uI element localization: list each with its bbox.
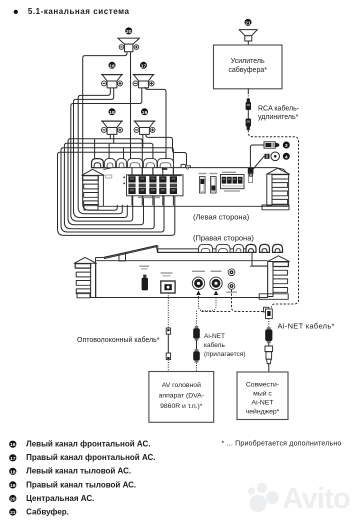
speaker 19 (rear right) — [134, 121, 156, 134]
box AV head unit — [149, 372, 214, 423]
speaker 17 minus terminal — [133, 81, 138, 86]
svg-text:16: 16 — [10, 442, 16, 448]
optical cable run — [167, 293, 169, 328]
amp2 arrow into DIN2 — [214, 291, 218, 296]
ai-net cable connector 2 — [193, 349, 200, 363]
svg-text:Ai-NET: Ai-NET — [252, 399, 274, 406]
amp2 body outline — [96, 246, 268, 298]
wire to connector 3 — [250, 145, 264, 168]
amp2 DIN connector 2 — [210, 277, 222, 289]
speaker 18 (rear left) — [101, 121, 123, 134]
amp1 rca jack pair — [248, 168, 254, 174]
svg-text:Сабвуфер.: Сабвуфер. — [26, 507, 69, 516]
speaker 18 circled number — [109, 108, 116, 116]
svg-text:Ai-NET: Ai-NET — [204, 333, 225, 340]
svg-text:аппарат (DVA-: аппарат (DVA- — [159, 393, 204, 400]
svg-text:17: 17 — [10, 456, 16, 462]
ai-net cable connector 1 — [193, 326, 200, 341]
wire run2: horizontal, drops, bundle, loop to col 154.2 — [64, 143, 154, 228]
watermark Avito — [248, 483, 350, 515]
speaker 16 minus terminal — [102, 81, 107, 86]
svg-text:* ... Приобретается дополнител: * ... Приобретается дополнительно — [222, 440, 342, 448]
amp1 right foot — [262, 205, 289, 210]
svg-text:мый с: мый с — [253, 389, 272, 397]
speaker 19 plus terminal — [150, 127, 155, 132]
amp1 power terminal block — [221, 175, 245, 189]
speaker 18 minus terminal — [102, 127, 107, 132]
cables below — [77, 290, 335, 372]
wire S20 plus: straight down to hump4/column — [131, 52, 133, 175]
svg-text:21: 21 — [245, 20, 251, 26]
optical connector B — [166, 353, 170, 360]
connector 4 (rca plug) — [265, 152, 280, 161]
circled 4 — [283, 153, 290, 161]
svg-text:3: 3 — [285, 143, 288, 149]
svg-text:Левый канал фронтальной АС.: Левый канал фронтальной АС. — [26, 440, 150, 449]
side labels — [193, 213, 254, 243]
amp1 left foot — [84, 205, 98, 211]
wire S19a stub — [142, 134, 144, 147]
speaker 17 plus terminal — [149, 81, 154, 86]
amp1 crossover switches — [200, 177, 206, 194]
RCA extension connector upper — [246, 99, 251, 110]
svg-text:18: 18 — [109, 110, 115, 116]
wire S17a: staircase, bundle, loop to col 132.7 — [71, 88, 142, 221]
svg-text:Правый канал тыловой АС.: Правый канал тыловой АС. — [26, 480, 136, 489]
changer barrel connector — [265, 327, 272, 343]
svg-text:17: 17 — [141, 63, 147, 69]
svg-text:RCA кабель-: RCA кабель- — [258, 104, 300, 112]
legend item 18 — [9, 467, 131, 476]
wires — [58, 52, 187, 236]
amp2 wire humps — [199, 244, 213, 252]
legend item 17 — [9, 453, 155, 462]
watermark avito logo — [248, 483, 350, 515]
legend item 19 — [9, 480, 136, 489]
speaker 20 minus terminal — [119, 45, 124, 50]
amp2 edge detail — [104, 247, 156, 259]
legend item 21 — [9, 507, 69, 516]
right changer path dashes — [232, 290, 264, 312]
wire to connector 4 — [253, 156, 264, 169]
svg-text:кабель: кабель — [204, 341, 225, 349]
connector 3 (optical plug) — [264, 142, 279, 148]
svg-text:Avito: Avito — [283, 483, 351, 515]
svg-text:20: 20 — [126, 29, 132, 35]
legend — [9, 440, 155, 517]
svg-text:Левый канал тыловой АС.: Левый канал тыловой АС. — [26, 467, 131, 476]
svg-text:4: 4 — [285, 154, 288, 160]
wire run4: horizontal, bundle, loop to col 174.8 — [58, 152, 175, 235]
svg-text:Усилитель: Усилитель — [231, 58, 265, 65]
wire S16a: staircase, bundle, loop — [78, 88, 122, 214]
amp1 bracket tab — [249, 173, 252, 176]
boxes — [149, 372, 288, 423]
svg-text:чейнджер*: чейнджер* — [246, 407, 280, 415]
amp2 DIN labels — [192, 271, 205, 272]
amp1 — [82, 159, 290, 210]
amp1 top edge bump — [181, 164, 191, 167]
box ai-net changer — [237, 372, 288, 420]
L-plug ai-net — [264, 307, 273, 318]
amp1 terminal block tiny label below — [138, 197, 160, 199]
wire speaker21 to box — [247, 41, 249, 45]
svg-text:Центральная АС.: Центральная АС. — [26, 494, 94, 503]
svg-text:9860R и т.п.)*: 9860R и т.п.)* — [160, 403, 203, 410]
wire run1: horizontal, drops, bundle, loop to col 143.5 — [68, 139, 144, 225]
amp1 wire humps over top edge — [92, 159, 104, 168]
amp2 right foot — [259, 294, 288, 300]
speaker 20 plus terminal — [134, 45, 139, 50]
wire S20 minus: left, down bundle, innermost loop — [83, 52, 127, 210]
speaker 16 circled number — [109, 62, 116, 70]
wire S18b stub — [113, 134, 115, 143]
wire S18a stub — [109, 134, 111, 138]
amp2 ai-net plug icon on face — [142, 278, 148, 291]
svg-text:(прилагается): (прилагается) — [204, 351, 245, 358]
header — [14, 7, 130, 16]
speaker 19 circled number — [141, 108, 148, 116]
amp1 heat sink left — [82, 169, 104, 206]
wire run3: horizontal, drops, bundle, loop to col 164 — [61, 148, 173, 232]
legend item 16 — [9, 440, 150, 449]
speaker 17 (front right) — [133, 75, 155, 88]
wire box to rca — [247, 89, 249, 93]
speaker 20 circled number — [125, 27, 132, 35]
legend item 20 — [9, 494, 94, 503]
speakers — [101, 27, 156, 134]
amp2 optical port — [161, 281, 175, 293]
svg-text:(Правая сторона): (Правая сторона) — [193, 234, 254, 243]
amp1 screw — [187, 167, 189, 169]
speaker 16 (front left) — [101, 75, 123, 88]
wire rca mid — [247, 110, 249, 119]
ai-net cable left run — [199, 296, 217, 311]
amp1 body outline — [103, 168, 288, 207]
svg-text:5.1-канальная система: 5.1-канальная система — [28, 7, 130, 16]
amp1 switch labels — [199, 173, 207, 174]
svg-text:Ai-NET кабель*: Ai-NET кабель* — [278, 322, 335, 331]
svg-text:18: 18 — [10, 469, 16, 475]
amp1 small label on edge — [162, 168, 168, 170]
svg-text:Совмести-: Совмести- — [246, 381, 279, 388]
svg-text:19: 19 — [142, 110, 148, 116]
svg-text:AV головной: AV головной — [162, 381, 201, 389]
amp2 heat sink right — [268, 256, 290, 297]
optical connector A — [166, 328, 170, 334]
speaker 17 circled number — [140, 62, 147, 70]
svg-text:(Левая сторона): (Левая сторона) — [193, 213, 250, 222]
svg-text:Оптоволоконный кабель*: Оптоволоконный кабель* — [77, 336, 160, 344]
wire S17b: right route to hump6 — [145, 87, 166, 167]
amp2 heat sink left — [74, 257, 96, 297]
amp1 heat sink right — [267, 168, 290, 205]
amp1 power block label — [222, 172, 236, 173]
wire S16b: staircase, bundle, loop — [74, 88, 128, 218]
amp2 — [74, 244, 289, 299]
amp2 DIN connector 1 — [192, 277, 204, 289]
svg-text:удлинитель*: удлинитель* — [258, 114, 299, 121]
svg-text:сабвуфера*: сабвуфера* — [228, 66, 267, 74]
box subwoofer amplifier — [214, 45, 283, 89]
subamp chain — [214, 19, 300, 308]
amp1 speaker output terminal block — [127, 175, 184, 196]
circled 3 — [283, 142, 290, 150]
svg-text:Правый канал фронтальной АС.: Правый канал фронтальной АС. — [26, 453, 155, 462]
amp1 face screws left of block — [123, 176, 125, 178]
changer DIN plug — [265, 346, 273, 364]
speaker 16 plus terminal — [118, 81, 123, 86]
amp2 left foot — [77, 293, 90, 298]
dashed route right side — [248, 130, 298, 308]
speaker 21 (subwoofer) — [239, 30, 257, 41]
svg-text:19: 19 — [10, 483, 16, 489]
speaker 19 minus terminal — [134, 127, 139, 132]
svg-text:16: 16 — [109, 63, 115, 69]
amp2 arrow into DIN1 — [196, 291, 200, 296]
wire S19b: right route to edge bump — [146, 134, 187, 164]
RCA extension connector lower — [246, 119, 251, 130]
amp1 terminal column wires through face — [131, 168, 133, 205]
wire to changer box — [268, 364, 270, 372]
svg-text:20: 20 — [10, 497, 16, 503]
subwoofer circled 21 — [245, 19, 252, 27]
amp2 sub out jacks — [228, 269, 235, 276]
speaker 18 plus terminal — [118, 127, 123, 132]
svg-text:21: 21 — [10, 510, 16, 516]
